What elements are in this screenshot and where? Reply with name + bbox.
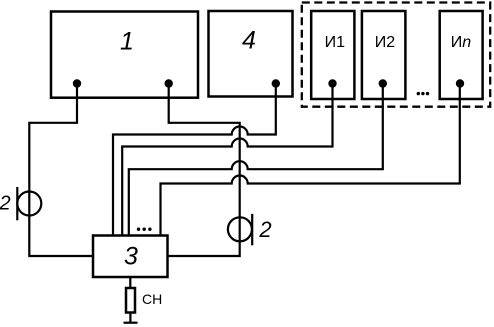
svg-text:2: 2	[0, 193, 11, 215]
svg-text:2: 2	[258, 217, 271, 242]
svg-text:И1: И1	[325, 34, 346, 51]
svg-text:3: 3	[124, 243, 138, 271]
svg-text:И2: И2	[375, 34, 396, 51]
svg-text:4: 4	[242, 27, 256, 55]
svg-text:1: 1	[120, 28, 134, 56]
svg-text:Иn: Иn	[451, 34, 472, 51]
svg-text:СН: СН	[142, 291, 162, 307]
